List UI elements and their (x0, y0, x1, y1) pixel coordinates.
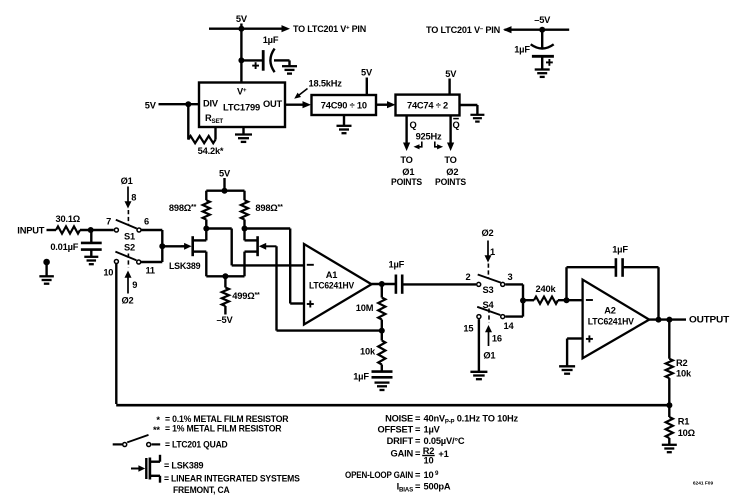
resistor 240k (523, 299, 534, 301)
svg-text:=: = (415, 413, 421, 423)
svg-text:9: 9 (132, 280, 137, 290)
resistor 30.1 ohm (56, 226, 80, 233)
svg-text:Q: Q (409, 120, 416, 130)
svg-text:11: 11 (145, 266, 154, 276)
transistor Q1 LSK389 left (184, 243, 192, 250)
resistor R1 (668, 405, 670, 417)
ground input cap (84, 256, 98, 258)
wire RSET up to pin (214, 127, 216, 140)
svg-text:S2: S2 (124, 243, 135, 253)
arrow Qbar output (447, 143, 454, 152)
svg-text:TO: TO (444, 155, 456, 165)
wire pin15 to ground (478, 319, 480, 372)
svg-text:10k: 10k (676, 369, 692, 379)
svg-text:= LINEAR INTEGRATED SYSTEMS: = LINEAR INTEGRATED SYSTEMS (164, 473, 300, 483)
svg-text:18.5kHz: 18.5kHz (309, 78, 343, 88)
capacitor 1uF V+ bypass (241, 59, 263, 61)
node S3 S4 junction (520, 298, 526, 304)
ground S4 pin15 (470, 371, 487, 373)
switch S2 (114, 260, 118, 264)
svg-text:1µF: 1µF (514, 44, 530, 54)
wire A1 output (372, 283, 396, 285)
ground servo cap (375, 381, 390, 383)
svg-text:TO LTC201 V– PIN: TO LTC201 V– PIN (426, 25, 500, 35)
wire phase2 dashed (127, 254, 129, 268)
svg-text:FREMONT, CA: FREMONT, CA (173, 485, 230, 495)
resistor 10M (381, 284, 383, 298)
svg-text:= 1% METAL FILM RESISTOR: = 1% METAL FILM RESISTOR (165, 424, 282, 434)
svg-text:OUTPUT: OUTPUT (689, 315, 730, 325)
wire coupling cap to S3 (402, 283, 476, 285)
wire Qbar output (449, 115, 451, 144)
svg-text:5V: 5V (145, 100, 157, 110)
capacitor 1uF A2 feedback (615, 258, 618, 277)
wire to left gate (162, 245, 186, 247)
svg-text:Ø2: Ø2 (121, 295, 133, 305)
node A2 minus junction (564, 297, 570, 303)
svg-text:74C74 ÷ 2: 74C74 ÷ 2 (407, 101, 448, 111)
arrow phase2 (125, 271, 132, 278)
svg-text:1µF: 1µF (612, 244, 628, 254)
svg-text:Ø1: Ø1 (483, 350, 495, 360)
svg-text:240k: 240k (536, 284, 557, 294)
switch S4 (477, 315, 481, 319)
svg-text:30.1Ω: 30.1Ω (56, 214, 81, 224)
arrow phase1 (125, 201, 132, 208)
wire phase1 S4 dashed (488, 309, 490, 323)
oscillator U1 LTC1799 box (199, 83, 285, 128)
resistor 499 ohm (222, 288, 229, 307)
label + polarity V- cap (546, 61, 553, 63)
svg-text:S3: S3 (483, 285, 494, 295)
svg-text:8: 8 (131, 192, 136, 202)
wire DIV down (187, 104, 189, 139)
node -5V rail junction (539, 27, 545, 33)
svg-text:10: 10 (424, 456, 434, 466)
wire tail to 499 (224, 276, 226, 287)
wire 74C90 to 74C74 (376, 103, 389, 105)
wire source tail (206, 275, 244, 277)
svg-text:LTC6241HV: LTC6241HV (588, 317, 635, 327)
svg-text:A2: A2 (604, 306, 616, 316)
wire 5V JFET rail (206, 189, 244, 191)
svg-text:=: = (415, 425, 421, 435)
svg-text:= LTC201 QUAD: = LTC201 QUAD (165, 440, 228, 450)
svg-text:LTC6241HV: LTC6241HV (309, 281, 355, 291)
ground V- bypass cap (535, 68, 550, 70)
svg-text:1µF: 1µF (388, 260, 404, 270)
legend switch symbol (113, 443, 123, 445)
svg-text:= LSK389: = LSK389 (164, 461, 203, 471)
svg-text:0.01µF: 0.01µF (50, 242, 78, 252)
svg-text:OUT: OUT (263, 99, 283, 109)
wire 898L to drain (205, 220, 207, 229)
svg-text:2: 2 (466, 272, 471, 282)
svg-text:16: 16 (492, 334, 502, 344)
wire phase2 arrow (127, 276, 129, 294)
capacitor 1uF servo (372, 370, 393, 373)
wire phase1 arrow (127, 187, 129, 204)
wire to S1 (80, 229, 114, 231)
svg-text:5V: 5V (445, 69, 457, 79)
node A1 output (379, 281, 385, 287)
svg-text:500pA: 500pA (424, 481, 451, 491)
svg-text:1µV: 1µV (424, 425, 441, 435)
ground signal reference (45, 262, 47, 276)
svg-text:LSK389: LSK389 (169, 261, 201, 271)
wire S2 output (141, 261, 162, 263)
ground 74C90 (343, 115, 345, 126)
svg-text:7: 7 (106, 217, 111, 227)
arrow into 74C74 (387, 101, 396, 108)
svg-text:–5V: –5V (217, 315, 234, 325)
svg-text:DIV: DIV (203, 99, 219, 109)
capacitor 1uF coupling (395, 275, 398, 294)
wire S3 pin3 output (505, 283, 523, 285)
node output junction (666, 317, 672, 323)
svg-text:A1: A1 (326, 270, 338, 280)
svg-text:14: 14 (504, 321, 515, 331)
wire phase1 S4 arrow (488, 331, 490, 347)
node 5V JFET junction (222, 188, 228, 194)
node 10M 10k junction (379, 328, 385, 334)
svg-text:6: 6 (144, 217, 149, 227)
wire left drain to A1 minus (206, 227, 231, 229)
resistor RSET 54.2k (188, 136, 215, 143)
svg-text:1µF: 1µF (353, 371, 369, 381)
node A2 feedback junction (656, 317, 662, 323)
svg-text:S4: S4 (483, 300, 495, 310)
svg-text:=: = (415, 470, 421, 480)
switch S1 (114, 228, 118, 232)
wire input (47, 229, 57, 231)
arrow 925Hz right (435, 142, 439, 147)
svg-text:R1: R1 (678, 416, 690, 426)
svg-text:Ø2: Ø2 (446, 167, 458, 177)
node feedback rail junction (666, 402, 672, 408)
wire 5V to DIV (159, 103, 200, 105)
svg-text:1: 1 (490, 247, 495, 257)
svg-text:R2: R2 (423, 446, 435, 456)
label A1 minus (307, 264, 314, 266)
svg-text:925Hz: 925Hz (416, 132, 442, 142)
transistor Q2 LSK389 right (259, 243, 267, 250)
label A1 plus (307, 303, 314, 305)
svg-text:OFFSET: OFFSET (378, 425, 414, 435)
svg-text:R2: R2 (676, 358, 688, 368)
wire A2 output (649, 318, 686, 320)
svg-text:5V: 5V (236, 14, 248, 24)
arrow to LTC201 V+ PIN (282, 25, 291, 32)
ground A2 plus (559, 365, 575, 367)
svg-text:Ø2: Ø2 (481, 228, 493, 238)
svg-text:OPEN-LOOP GAIN: OPEN-LOOP GAIN (345, 470, 413, 480)
arrow 925Hz left (418, 142, 422, 147)
arrow to LTC201 V- PIN (503, 26, 512, 33)
op-amp A1 LTC6241HV (304, 244, 372, 325)
wire Q output (405, 115, 407, 144)
node right drain (242, 226, 248, 232)
ground R1 (662, 444, 677, 446)
svg-text:*: * (156, 415, 160, 425)
wire right drain to A1 plus (245, 227, 291, 229)
arrow phase1 S4 (485, 325, 492, 332)
arrow Q output (403, 143, 410, 152)
wire phase1 dashed (127, 210, 129, 225)
wire 5V vertical to V+ pin (240, 24, 242, 83)
ground 74C74 right (460, 104, 478, 106)
node bypass cap junction (238, 57, 244, 63)
svg-text:5V: 5V (219, 168, 231, 178)
svg-text:=: = (415, 436, 421, 446)
node 5V rail junction (238, 26, 244, 32)
svg-text:15: 15 (463, 324, 473, 334)
wire -5V horizontal rail (505, 29, 570, 31)
wire 5V horizontal rail (209, 28, 283, 30)
wire 5V to 74C90 (366, 78, 368, 96)
node left drain (203, 226, 209, 232)
label A2 plus (586, 338, 593, 340)
svg-text:GAIN: GAIN (391, 449, 414, 459)
node switch output junction (159, 243, 165, 249)
arrow phase2 S3 (485, 255, 492, 262)
svg-text:10Ω: 10Ω (678, 428, 696, 438)
svg-text:54.2k*: 54.2k* (198, 146, 224, 156)
wire phase2 S3 arrow (487, 241, 489, 257)
node signal ground dot (43, 259, 50, 266)
resistor 10k A1 (381, 331, 383, 341)
svg-text:10M: 10M (356, 303, 374, 313)
node source junction (222, 273, 228, 279)
op-amp A2 LTC6241HV (583, 280, 650, 359)
svg-text:=: = (415, 481, 421, 491)
svg-text:NOISE: NOISE (385, 413, 413, 423)
svg-text:74C90 ÷ 10: 74C90 ÷ 10 (321, 101, 367, 111)
svg-text:TO: TO (400, 155, 412, 165)
arrow into 74C90 (303, 101, 312, 108)
svg-text:POINTS: POINTS (435, 177, 466, 187)
svg-text:Ø1: Ø1 (402, 167, 414, 177)
wire 5V JFET stub (223, 178, 225, 191)
ground LTC1799 (242, 127, 244, 135)
wire 898R to drain (243, 220, 245, 229)
svg-text:1µF: 1µF (263, 35, 279, 45)
wire A2 plus ground (567, 337, 583, 339)
svg-text:3: 3 (508, 272, 513, 282)
wire phase2 S3 dashed (487, 264, 489, 280)
svg-text:DRIFT: DRIFT (387, 436, 414, 446)
legend JFET symbol (131, 468, 139, 470)
svg-text:= 0.1% METAL FILM RESISTOR: = 0.1% METAL FILM RESISTOR (165, 414, 289, 424)
resistor R2 (668, 320, 670, 359)
ground bypass cap (288, 60, 290, 66)
svg-text:10k: 10k (360, 346, 376, 356)
wire S4 pin14 output (505, 315, 523, 317)
wire OUT to 74C90 (285, 103, 305, 105)
switch S3 (477, 282, 481, 286)
wire right gate feedback (275, 246, 277, 330)
svg-text:0.05µV/°C: 0.05µV/°C (424, 436, 465, 446)
svg-text:Ø1: Ø1 (121, 176, 133, 186)
svg-text:=: = (415, 449, 421, 459)
arrow 18.5kHz callout (298, 89, 308, 97)
wire pin10 to feedback rail (115, 264, 117, 404)
flip-flop U3 74C74 box (396, 95, 460, 116)
svg-text:Q: Q (452, 120, 459, 130)
capacitor 0.01uF (90, 230, 92, 242)
label A2 minus (586, 299, 593, 301)
svg-text:6241 F09: 6241 F09 (693, 480, 714, 486)
svg-text:**: ** (153, 425, 160, 435)
svg-text:INPUT: INPUT (17, 226, 45, 236)
label + polarity (252, 65, 259, 67)
resistor 898 ohm left (203, 200, 210, 219)
svg-text:+1: +1 (438, 449, 448, 459)
counter U2 74C90 box (312, 95, 377, 115)
capacitor 1uF V- bypass (541, 30, 543, 48)
svg-text:LTC1799: LTC1799 (223, 102, 260, 112)
svg-text:10: 10 (103, 267, 113, 277)
svg-text:POINTS: POINTS (391, 177, 422, 187)
node input RC junction (88, 227, 94, 233)
wire 5V to 74C74 (448, 79, 450, 95)
resistor 898 ohm right (241, 200, 248, 219)
wire S1 output (141, 229, 162, 231)
svg-text:TO LTC201 V+ PIN: TO LTC201 V+ PIN (293, 24, 366, 34)
wire 499 to -5V (224, 306, 226, 315)
node DIV junction (185, 101, 191, 107)
svg-text:–5V: –5V (534, 15, 551, 25)
svg-text:5V: 5V (361, 67, 373, 77)
svg-text:S1: S1 (124, 231, 135, 241)
wire A2 feedback (565, 267, 567, 300)
